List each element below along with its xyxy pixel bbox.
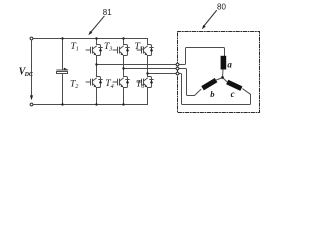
junction bus-leg1 top <box>95 37 97 39</box>
svg-text:1: 1 <box>76 46 79 53</box>
phase wire u <box>97 48 225 65</box>
wire leg3 <box>147 39 149 45</box>
junction cap-top <box>61 37 63 39</box>
svg-text:80: 80 <box>217 2 226 11</box>
wire leg2 <box>123 39 125 45</box>
gate lead <box>86 49 91 51</box>
svg-text:5: 5 <box>140 46 143 53</box>
terminal v on box <box>176 67 179 70</box>
transistor T2 <box>86 77 102 88</box>
diode branch wire <box>97 45 101 56</box>
svg-text:b: b <box>210 89 214 99</box>
emitter lead <box>93 52 96 54</box>
transistor T1 (IGBT with freewheel diode) <box>86 45 102 56</box>
junction bus-leg2 bottom <box>122 103 124 105</box>
top bus wire <box>33 38 147 40</box>
junction bus-leg1 bottom <box>95 103 97 105</box>
svg-text:c: c <box>231 89 235 99</box>
winding c <box>226 80 242 91</box>
junction bus-leg2 top <box>122 37 124 39</box>
collector lead <box>93 46 97 49</box>
transistor T4 <box>113 77 129 88</box>
star point <box>221 76 224 79</box>
svg-text:a: a <box>227 60 232 70</box>
terminal bottom-left <box>30 103 33 106</box>
leader 80 <box>204 11 217 27</box>
wire leg1 <box>96 39 98 45</box>
svg-text:4: 4 <box>111 83 114 90</box>
junction leg1-phase <box>95 63 97 65</box>
phase wire v <box>124 69 201 96</box>
enclosure 80 dashed box <box>178 32 260 113</box>
phase wire w <box>148 74 251 105</box>
svg-text:DC: DC <box>24 72 34 78</box>
source Vdc wire <box>31 40 33 95</box>
transistor T3 <box>113 45 129 56</box>
winding b <box>201 78 217 90</box>
transistor T6 <box>137 77 153 88</box>
channel bar <box>92 47 94 53</box>
Vdc arrow <box>30 95 33 100</box>
terminal w on box <box>176 72 179 75</box>
diode triangle <box>99 48 102 52</box>
bottom bus wire <box>33 104 147 106</box>
terminal top-left <box>30 37 33 40</box>
junction cap-bottom <box>61 103 63 105</box>
winding a <box>221 56 227 70</box>
svg-text:81: 81 <box>103 8 112 17</box>
transistor T5 <box>137 45 153 56</box>
svg-text:2: 2 <box>75 83 78 90</box>
capacitor C <box>62 39 64 71</box>
svg-text:3: 3 <box>108 46 112 53</box>
diode cathode bar <box>99 47 103 49</box>
junction leg3-phase <box>146 72 148 74</box>
junction leg2-phase <box>122 67 124 69</box>
terminal u on box <box>176 63 179 66</box>
emitter arrow <box>94 53 97 56</box>
gate bar <box>90 47 92 53</box>
leader 81 <box>91 16 105 32</box>
